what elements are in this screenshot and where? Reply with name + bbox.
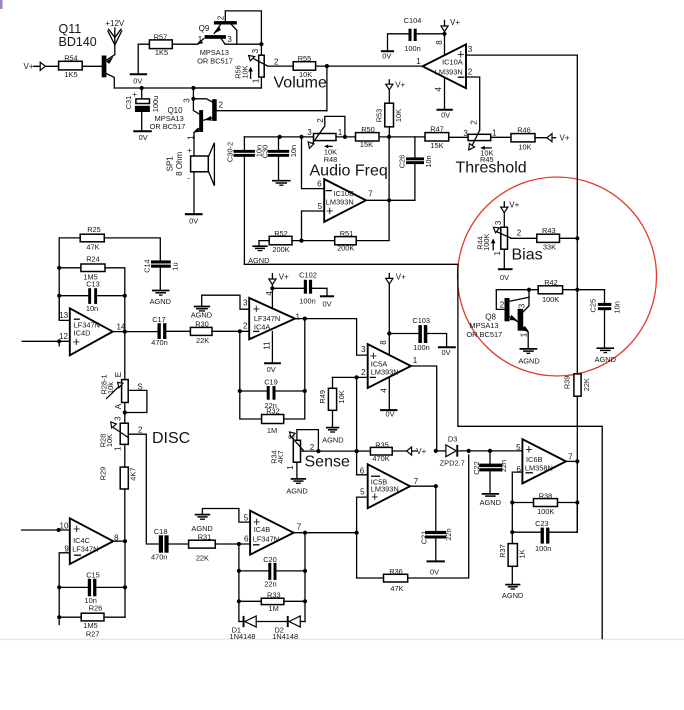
svg-text:15K: 15K xyxy=(360,140,373,149)
svg-text:1: 1 xyxy=(416,57,421,66)
svg-text:C31: C31 xyxy=(124,96,133,110)
resistor R54 xyxy=(59,61,83,70)
wire IC10B output pin7 xyxy=(366,199,415,201)
svg-text:22K: 22K xyxy=(196,336,209,345)
capacitor C22 xyxy=(489,451,491,464)
svg-text:470n: 470n xyxy=(151,552,167,561)
pin 8 stub IC10A xyxy=(444,34,446,55)
feedback verticals IC4B xyxy=(238,544,240,622)
svg-text:V+: V+ xyxy=(24,62,34,71)
svg-text:4K7: 4K7 xyxy=(276,450,285,463)
svg-text:470K: 470K xyxy=(372,454,389,463)
svg-text:A: A xyxy=(114,403,123,409)
svg-text:BD140: BD140 xyxy=(59,35,97,49)
svg-text:0V: 0V xyxy=(430,567,439,576)
svg-text:0V: 0V xyxy=(139,133,148,142)
wire R30 to IC4A pin2 xyxy=(212,330,249,332)
svg-text:10K: 10K xyxy=(337,390,346,403)
svg-text:3: 3 xyxy=(361,345,366,354)
svg-text:1: 1 xyxy=(286,465,295,470)
svg-text:1: 1 xyxy=(252,78,261,83)
svg-text:C103: C103 xyxy=(412,316,430,325)
svg-text:+: + xyxy=(326,204,333,218)
svg-text:SP1: SP1 xyxy=(165,156,174,172)
svg-text:1K5: 1K5 xyxy=(64,70,77,79)
svg-text:AGND: AGND xyxy=(502,591,523,600)
svg-text:0V: 0V xyxy=(385,410,394,419)
wire R44 wiper to R43 xyxy=(511,237,537,239)
wire R55 to IC10A pin1 xyxy=(316,65,423,67)
svg-text:2: 2 xyxy=(218,101,223,110)
svg-text:5: 5 xyxy=(516,443,521,452)
svg-text:10K: 10K xyxy=(240,65,249,78)
ground AGND above R30 xyxy=(202,295,250,309)
svg-text:3: 3 xyxy=(468,45,473,54)
wire IC10A output pin3 to right rail xyxy=(466,54,577,56)
svg-text:Threshold: Threshold xyxy=(456,160,527,177)
svg-text:10: 10 xyxy=(60,521,69,530)
svg-text:C20: C20 xyxy=(263,555,277,564)
wire IC4D output down to pot chain xyxy=(124,332,126,380)
svg-text:8: 8 xyxy=(435,40,444,45)
svg-text:2: 2 xyxy=(216,15,225,20)
wire IC5A pin2 to sense node xyxy=(356,377,358,451)
svg-text:Sense: Sense xyxy=(305,454,350,471)
resistor R36 loop xyxy=(356,533,358,578)
node dot R48 terminal1 xyxy=(343,135,347,139)
svg-text:100n: 100n xyxy=(535,544,551,553)
svg-text:OR BC517: OR BC517 xyxy=(150,122,186,131)
svg-text:C30-2: C30-2 xyxy=(226,142,235,162)
ground AGND at C14 xyxy=(159,268,161,290)
svg-text:3: 3 xyxy=(227,35,232,44)
svg-text:4: 4 xyxy=(434,87,443,92)
svg-text:V+: V+ xyxy=(395,80,405,89)
power V+ at R53 xyxy=(388,80,390,103)
node dot xyxy=(191,86,195,90)
svg-text:Q9: Q9 xyxy=(199,24,210,33)
svg-text:+: + xyxy=(73,522,80,536)
op-amp IC4A xyxy=(249,298,295,339)
svg-text:C15: C15 xyxy=(86,571,100,580)
svg-text:1M: 1M xyxy=(268,604,278,613)
svg-text:R55: R55 xyxy=(298,54,312,63)
svg-text:C13: C13 xyxy=(86,280,100,289)
node dot xyxy=(259,42,263,46)
svg-text:MPSA13: MPSA13 xyxy=(200,48,229,57)
svg-text:LM393N: LM393N xyxy=(435,68,463,77)
svg-text:2: 2 xyxy=(274,58,279,67)
svg-text:R51: R51 xyxy=(340,229,354,238)
wire C17 to R30 xyxy=(166,330,190,332)
svg-text:ZPD2.7: ZPD2.7 xyxy=(440,458,465,467)
svg-text:0V: 0V xyxy=(133,77,142,86)
wire R31 to IC4B pin6 xyxy=(215,543,250,545)
svg-text:2: 2 xyxy=(138,426,143,435)
resistor R37 xyxy=(511,532,513,543)
svg-text:AGND: AGND xyxy=(480,498,501,507)
svg-text:3: 3 xyxy=(518,303,527,308)
node V+ right of R46 xyxy=(535,137,556,139)
svg-text:1N4148: 1N4148 xyxy=(230,632,256,641)
svg-text:V+: V+ xyxy=(416,447,426,456)
power V+ at IC5A pin8 xyxy=(388,273,390,333)
svg-text:0V: 0V xyxy=(267,365,276,374)
svg-text:C18: C18 xyxy=(154,527,168,536)
ground 0V below R44 xyxy=(503,249,505,268)
svg-text:OR BC517: OR BC517 xyxy=(466,330,502,339)
wire pot wiper to R55 xyxy=(268,65,293,67)
node dot xyxy=(140,86,144,90)
diode D3 xyxy=(436,450,446,452)
svg-text:C104: C104 xyxy=(404,16,422,25)
svg-text:3: 3 xyxy=(463,129,468,138)
long routed net (C30-2 to bottom right) xyxy=(244,264,602,638)
svg-text:1: 1 xyxy=(295,313,300,322)
wire IC5A output down to D3 node xyxy=(411,366,437,451)
node dot pin6 drop xyxy=(299,135,303,139)
wire R52 to R51 xyxy=(292,240,335,242)
wire Q10 collector xyxy=(217,110,327,112)
ground AGND above R31 xyxy=(202,509,250,523)
svg-text:3: 3 xyxy=(114,416,123,421)
svg-text:100n: 100n xyxy=(299,296,315,305)
ground AGND at R49 xyxy=(332,410,334,427)
svg-text:6: 6 xyxy=(360,466,365,475)
wire IC10A pin2 down to R45 wiper xyxy=(466,77,480,130)
svg-text:4K7: 4K7 xyxy=(129,468,138,481)
svg-text:R27: R27 xyxy=(86,629,100,638)
resistor R51 xyxy=(335,237,357,245)
svg-text:R54: R54 xyxy=(64,54,78,63)
svg-text:1M: 1M xyxy=(267,426,277,435)
resistor R53 xyxy=(385,103,394,127)
op-amp IC5A xyxy=(368,344,411,388)
svg-text:1N4148: 1N4148 xyxy=(272,632,298,641)
svg-text:1: 1 xyxy=(519,332,528,337)
resistor R55 xyxy=(293,62,315,70)
resistor R47 xyxy=(425,133,449,141)
svg-text:DISC: DISC xyxy=(152,430,190,447)
svg-text:R24: R24 xyxy=(86,255,100,264)
wire R53 node down to output xyxy=(388,137,390,200)
potentiometer R45 xyxy=(449,136,468,138)
svg-text:47K: 47K xyxy=(86,243,99,252)
wire IC4B output xyxy=(294,532,357,534)
svg-text:15K: 15K xyxy=(430,141,443,150)
svg-text:V+: V+ xyxy=(450,18,460,27)
svg-text:Bias: Bias xyxy=(512,246,543,263)
svg-text:10K: 10K xyxy=(105,434,114,447)
svg-text:100K: 100K xyxy=(542,295,559,304)
svg-text:R52: R52 xyxy=(274,229,288,238)
svg-text:1: 1 xyxy=(114,446,123,451)
wire IC6B output to rail xyxy=(566,460,577,462)
svg-text:AGND: AGND xyxy=(595,355,616,364)
svg-text:2: 2 xyxy=(310,443,315,452)
svg-text:R26: R26 xyxy=(89,604,103,613)
svg-text:22K: 22K xyxy=(582,378,591,391)
svg-text:2: 2 xyxy=(468,68,473,77)
ground AGND at R52 xyxy=(259,241,269,246)
wire IC6B pin6 loop xyxy=(512,472,522,532)
svg-text:AGND: AGND xyxy=(191,310,212,319)
pin4 stub + 0V xyxy=(388,377,390,409)
op-amp IC10A xyxy=(423,44,466,88)
svg-text:0V: 0V xyxy=(322,299,331,308)
feedback verticals xyxy=(240,331,262,419)
svg-text:MPSA13: MPSA13 xyxy=(469,321,498,330)
svg-text:4: 4 xyxy=(380,388,389,393)
svg-text:R46: R46 xyxy=(517,125,531,134)
svg-text:6: 6 xyxy=(244,535,249,544)
svg-text:3: 3 xyxy=(251,48,260,53)
power V+ at C104 xyxy=(444,20,446,33)
op-amp IC4B xyxy=(250,511,294,555)
page boundary faint line xyxy=(0,638,684,640)
svg-text:R47: R47 xyxy=(430,125,444,134)
op-amp IC6B xyxy=(522,439,566,483)
svg-text:AGND: AGND xyxy=(322,436,343,445)
wire R25 left down xyxy=(59,238,80,321)
resistor R50 xyxy=(356,133,380,141)
svg-text:2: 2 xyxy=(316,118,325,123)
svg-text:47K: 47K xyxy=(390,584,403,593)
wire Q9 collector row xyxy=(225,43,261,45)
svg-text:7: 7 xyxy=(568,453,573,462)
svg-text:4: 4 xyxy=(265,291,274,296)
svg-text:C25: C25 xyxy=(589,299,598,313)
diode D2 xyxy=(287,616,289,627)
svg-text:R29: R29 xyxy=(98,467,107,481)
svg-text:+: + xyxy=(187,146,192,155)
svg-text:AGND: AGND xyxy=(518,356,539,365)
wire IC5B output to C21 xyxy=(410,485,436,487)
svg-text:+12V: +12V xyxy=(105,19,125,28)
svg-text:Volume: Volume xyxy=(274,75,327,92)
svg-text:3: 3 xyxy=(307,128,312,137)
wire rail to IC10B pin6 xyxy=(302,137,325,189)
svg-text:1: 1 xyxy=(492,128,497,137)
svg-text:22n: 22n xyxy=(264,580,276,589)
svg-text:0V: 0V xyxy=(500,273,509,282)
svg-text:C102: C102 xyxy=(299,270,317,279)
resistor R39 xyxy=(574,374,581,396)
svg-text:AGND: AGND xyxy=(150,297,171,306)
potentiometer R48 xyxy=(314,134,337,141)
svg-text:IC4B: IC4B xyxy=(254,525,271,534)
svg-text:LM393N: LM393N xyxy=(371,367,399,376)
svg-text:10n: 10n xyxy=(424,155,433,167)
page corner mark (purple) xyxy=(0,0,3,9)
svg-text:100K: 100K xyxy=(482,234,491,251)
svg-text:C22: C22 xyxy=(472,461,481,475)
svg-text:LF347N: LF347N xyxy=(253,535,279,544)
wire D1 to D2 xyxy=(256,621,287,623)
svg-text:C23: C23 xyxy=(535,519,549,528)
resistor R46 xyxy=(511,134,535,142)
capacitor C21 xyxy=(435,486,437,531)
svg-text:33K: 33K xyxy=(543,243,556,252)
svg-text:11: 11 xyxy=(263,341,272,350)
svg-text:0V: 0V xyxy=(441,110,450,119)
svg-text:10K: 10K xyxy=(394,109,403,122)
svg-text:V+: V+ xyxy=(509,200,519,209)
wire IC4C pin9 loop xyxy=(59,553,70,617)
svg-text:AGND: AGND xyxy=(286,487,307,496)
op-amp IC4C xyxy=(70,518,113,564)
svg-text:R50: R50 xyxy=(361,125,375,134)
pin 4 stub + 0V xyxy=(444,78,446,110)
svg-text:R25: R25 xyxy=(87,225,101,234)
resistor R29 xyxy=(124,444,126,467)
wire IC5A pin2 xyxy=(333,376,368,378)
wire R28 wiper to C18 xyxy=(128,434,159,544)
svg-text:10n: 10n xyxy=(613,301,622,313)
svg-text:7: 7 xyxy=(414,477,419,486)
right vertical rail xyxy=(576,55,578,374)
svg-text:5: 5 xyxy=(318,202,323,211)
svg-text:22K: 22K xyxy=(196,554,209,563)
svg-text:3: 3 xyxy=(494,220,503,225)
svg-text:10K: 10K xyxy=(518,143,531,152)
wire IC10B pin5 xyxy=(302,211,325,241)
svg-text:8: 8 xyxy=(379,340,388,345)
svg-text:8 Ohm: 8 Ohm xyxy=(175,151,184,175)
svg-text:IC4A: IC4A xyxy=(254,322,271,331)
svg-text:+: + xyxy=(73,335,80,349)
svg-text:V+: V+ xyxy=(396,272,406,281)
svg-text:C19: C19 xyxy=(264,377,278,386)
wire Q11 collector node xyxy=(114,87,261,89)
svg-text:2: 2 xyxy=(470,120,479,125)
capacitor C31 (polarized) xyxy=(141,88,143,99)
svg-text:-: - xyxy=(187,173,190,182)
wire R57 to Q9 emitter xyxy=(172,43,198,45)
power V+ at R44 xyxy=(503,202,505,227)
svg-text:13: 13 xyxy=(59,311,68,320)
svg-text:R49: R49 xyxy=(318,390,327,404)
svg-text:1K: 1K xyxy=(517,549,526,558)
potentiometer R56 xyxy=(260,44,262,55)
svg-text:100n: 100n xyxy=(404,44,420,53)
svg-text:6: 6 xyxy=(317,180,322,189)
capacitor C25 xyxy=(604,290,606,303)
svg-text:C14: C14 xyxy=(142,259,151,273)
main mid rail xyxy=(244,136,313,138)
op-amp IC4D xyxy=(59,296,70,321)
svg-text:2: 2 xyxy=(517,229,522,238)
node V+ right of R35 xyxy=(392,450,417,452)
ground AGND below R34 xyxy=(296,462,298,478)
pin8 stub IC5A xyxy=(388,334,390,356)
wire wiper to pin6 node xyxy=(301,450,357,452)
node dot xyxy=(442,32,446,36)
wire IC4D pin12 input xyxy=(22,340,70,342)
resistor R57 xyxy=(149,40,172,49)
svg-text:0V: 0V xyxy=(382,52,391,61)
svg-text:+: + xyxy=(371,490,378,504)
wire R54 to Q11 base xyxy=(82,65,102,67)
svg-text:R39: R39 xyxy=(563,376,572,390)
wire C18 to R31 xyxy=(169,543,189,545)
svg-text:2: 2 xyxy=(361,368,366,377)
svg-text:R53: R53 xyxy=(375,109,384,123)
svg-text:V+: V+ xyxy=(279,273,289,282)
svg-text:100K: 100K xyxy=(537,507,554,516)
svg-text:3: 3 xyxy=(183,98,192,103)
capacitor C26 xyxy=(414,137,416,158)
op-amp IC5B xyxy=(357,451,368,475)
svg-text:LM358N: LM358N xyxy=(525,464,553,473)
svg-text:7: 7 xyxy=(297,523,302,532)
svg-text:200K: 200K xyxy=(337,243,354,252)
svg-text:D3: D3 xyxy=(448,434,457,443)
ground 0V at R57 xyxy=(138,44,149,74)
svg-text:R57: R57 xyxy=(154,32,168,41)
svg-text:470n: 470n xyxy=(151,338,167,347)
ground AGND below R37 xyxy=(511,566,513,584)
resistor R24 xyxy=(81,264,105,272)
svg-text:3: 3 xyxy=(243,299,248,308)
svg-text:1K5: 1K5 xyxy=(155,48,168,57)
ground AGND at Q8 xyxy=(520,348,538,350)
svg-text:1u: 1u xyxy=(171,262,180,270)
svg-text:E: E xyxy=(114,372,123,377)
svg-text:5: 5 xyxy=(360,488,365,497)
svg-text:0V: 0V xyxy=(441,348,450,357)
wire IC4D output xyxy=(113,331,158,333)
svg-text:Audio Freq: Audio Freq xyxy=(310,163,388,180)
svg-text:1: 1 xyxy=(493,250,502,255)
svg-text:LF347N: LF347N xyxy=(72,545,98,554)
resistor R52 xyxy=(269,236,292,245)
svg-text:200K: 200K xyxy=(272,245,289,254)
svg-text:2: 2 xyxy=(500,300,505,309)
svg-text:10n: 10n xyxy=(289,145,298,157)
node dot R53 xyxy=(387,135,391,139)
svg-text:5: 5 xyxy=(244,514,249,523)
red highlight ellipse around Bias section xyxy=(458,177,657,376)
power V+ at IC4A pin4 xyxy=(271,274,273,309)
svg-text:1: 1 xyxy=(413,356,418,365)
wire IC5B pin5 xyxy=(357,497,368,533)
svg-text:C17: C17 xyxy=(152,315,166,324)
diode D1 xyxy=(239,621,243,623)
wire IC4C pin10 input xyxy=(22,529,70,531)
svg-text:C26: C26 xyxy=(398,155,407,169)
wire IC4A output to IC5A pin3 xyxy=(295,319,368,356)
pin 11 stub + 0V xyxy=(271,332,273,363)
svg-text:0V: 0V xyxy=(189,217,198,226)
svg-text:V+: V+ xyxy=(560,134,570,143)
wire R25 right to C14 xyxy=(104,238,160,261)
node dot xyxy=(325,64,329,68)
svg-text:1: 1 xyxy=(338,128,343,137)
svg-text:2: 2 xyxy=(243,321,248,330)
svg-text:100n: 100n xyxy=(413,343,429,352)
svg-text:10n: 10n xyxy=(86,304,98,313)
resistor R49 xyxy=(332,377,334,388)
svg-text:+: + xyxy=(457,48,464,62)
svg-text:22n: 22n xyxy=(444,528,453,540)
svg-text:100u: 100u xyxy=(151,96,160,112)
wire R51 right up to output node xyxy=(356,200,389,240)
svg-text:R37: R37 xyxy=(498,544,507,558)
wire node to Q10 collector xyxy=(326,66,328,111)
wire IC4C output xyxy=(113,540,125,542)
svg-text:OR BC517: OR BC517 xyxy=(197,57,233,66)
